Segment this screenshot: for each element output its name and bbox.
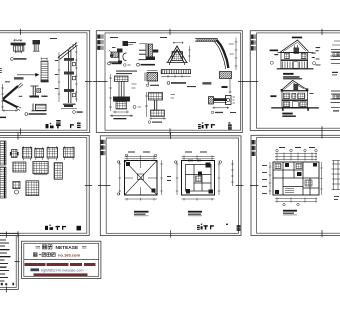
svg-text:no.163.com: no.163.com bbox=[58, 253, 80, 258]
svg-text:hgfsfdfszr-hr.netease.com: hgfsfdfszr-hr.netease.com bbox=[41, 268, 83, 272]
svg-text:NETEASE: NETEASE bbox=[56, 245, 79, 251]
